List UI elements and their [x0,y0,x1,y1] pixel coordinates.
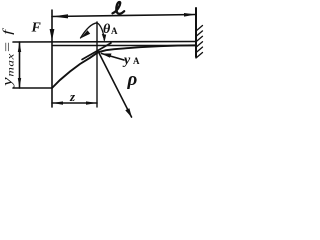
arrowhead: dim l right [184,13,196,17]
arrowhead: theta arc left [81,30,91,38]
svg-text:F: F [31,21,42,36]
label y_max = f (rotated) [0,27,16,88]
dimension line z (bottom) [52,102,97,104]
arrowhead: rho bottom [125,108,132,118]
angle arc theta_A [81,23,105,40]
dimension line l (top) [52,15,196,17]
svg-text:ρ: ρ [127,69,138,90]
arrowhead: y_max top [18,42,21,52]
wire: deflected beam curve [52,45,196,88]
svg-text:A: A [133,56,140,66]
arrowhead: y_max bottom [18,78,21,88]
leader line y_A [102,54,125,61]
wire: vertical line at load point x=52 (force line + extension line) [51,10,53,107]
arrowhead: dim l left [52,14,68,18]
wire: tangent line at point A [82,43,111,60]
extension line bottom for y_max [13,87,52,89]
arrowhead: z left [52,101,63,104]
wire: vertical extension line at point A [96,22,98,107]
arrowhead: force F down [50,29,55,41]
arrowhead: y_A leader [101,54,112,58]
svg-text:y: y [122,53,131,68]
wire: rho radius line [99,52,132,117]
svg-text:θ: θ [103,22,111,37]
svg-text:z: z [69,89,76,104]
label l (length) [113,2,125,14]
dimension line y_max (left) [19,42,21,88]
wire: beam bottom line (undeflected) [53,45,196,47]
wall hatching [196,26,203,59]
wall: fixed support vertical line [195,8,197,57]
wire: beam top line (undeflected axis, with left extension to y_max dim) [13,41,196,44]
svg-text:A: A [111,26,118,36]
arrowhead: z right [86,101,97,104]
arrowhead: theta arc right [102,34,106,42]
